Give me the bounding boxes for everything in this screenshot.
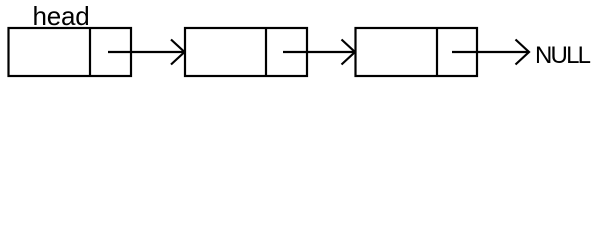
node 2 divider: [265, 28, 267, 76]
arrowhead 2: [342, 40, 356, 65]
node 3 divider: [436, 28, 438, 76]
svg-text:head: head: [33, 1, 90, 31]
arrowhead 3: [516, 40, 530, 65]
node 1 box: [9, 28, 132, 76]
arrowhead 1: [171, 40, 185, 65]
node 1 divider: [89, 28, 91, 76]
svg-text:NULL: NULL: [535, 42, 591, 69]
arrow node3 to NULL: [452, 51, 529, 53]
node 3 box: [356, 28, 478, 76]
arrow node2 to node3: [283, 51, 355, 53]
node 2 box: [185, 28, 307, 76]
arrow node1 to node2: [108, 51, 184, 53]
